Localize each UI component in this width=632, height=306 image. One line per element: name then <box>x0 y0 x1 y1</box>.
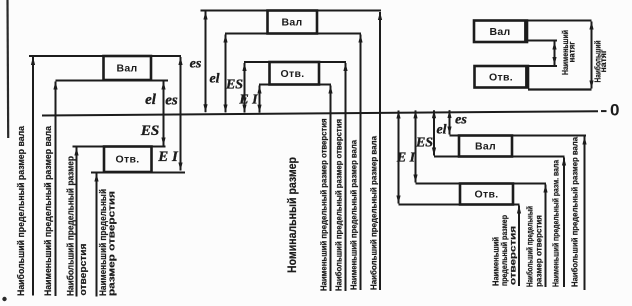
svg-text:el: el <box>209 72 219 87</box>
svg-text:размер отверстия: размер отверстия <box>535 215 544 287</box>
svg-text:натяг: натяг <box>568 41 577 63</box>
svg-text:E I: E I <box>157 149 179 165</box>
svg-text:Номинальный размер: Номинальный размер <box>285 157 299 273</box>
svg-text:Наибольший предельный размер о: Наибольший предельный размер отверстия <box>335 119 344 291</box>
svg-text:натяг: натяг <box>599 49 608 73</box>
svg-text:Вал: Вал <box>282 17 303 29</box>
svg-text:el: el <box>145 92 157 108</box>
svg-text:es: es <box>165 93 178 109</box>
svg-text:0: 0 <box>610 101 620 120</box>
svg-text:el: el <box>436 123 446 138</box>
svg-text:Наименьший предельный размер в: Наименьший предельный размер вала <box>43 125 53 296</box>
svg-text:Наибольший предельный: Наибольший предельный <box>526 206 535 287</box>
svg-text:Вал: Вал <box>475 141 496 153</box>
svg-text:Вал: Вал <box>490 26 511 38</box>
svg-text:ES: ES <box>225 78 243 93</box>
svg-text:отверстия: отверстия <box>78 244 88 296</box>
svg-text:размер отверстия: размер отверстия <box>107 191 117 296</box>
svg-text:Отв.: Отв. <box>475 189 499 201</box>
svg-text:Наибольший предельный размер в: Наибольший предельный размер вала <box>370 135 379 290</box>
svg-text:E I: E I <box>396 151 416 166</box>
svg-text:Наименьший предельный размер в: Наименьший предельный размер вала <box>350 139 359 290</box>
svg-text:Вал: Вал <box>117 63 138 75</box>
svg-text:Наименьший предельный разм. ва: Наименьший предельный разм. вала <box>552 160 561 287</box>
svg-text:E I: E I <box>238 93 258 108</box>
svg-text:Наибольший предельный размер в: Наибольший предельный размер вала <box>16 125 26 296</box>
svg-text:es: es <box>455 113 467 128</box>
svg-text:Наибольший предельный размер в: Наибольший предельный размер вала <box>571 136 580 287</box>
svg-text:es: es <box>190 57 202 72</box>
svg-text:отверстия: отверстия <box>509 226 518 285</box>
svg-text:Отв.: Отв. <box>489 71 513 83</box>
svg-text:Отв.: Отв. <box>116 154 140 166</box>
svg-text:Наибольший предельный размер: Наибольший предельный размер <box>66 156 76 296</box>
svg-text:ES: ES <box>415 136 433 151</box>
svg-text:Отв.: Отв. <box>281 68 305 80</box>
svg-text:ES: ES <box>140 123 159 139</box>
svg-text:Наименьший предельный размер о: Наименьший предельный размер отверстия <box>320 118 329 291</box>
